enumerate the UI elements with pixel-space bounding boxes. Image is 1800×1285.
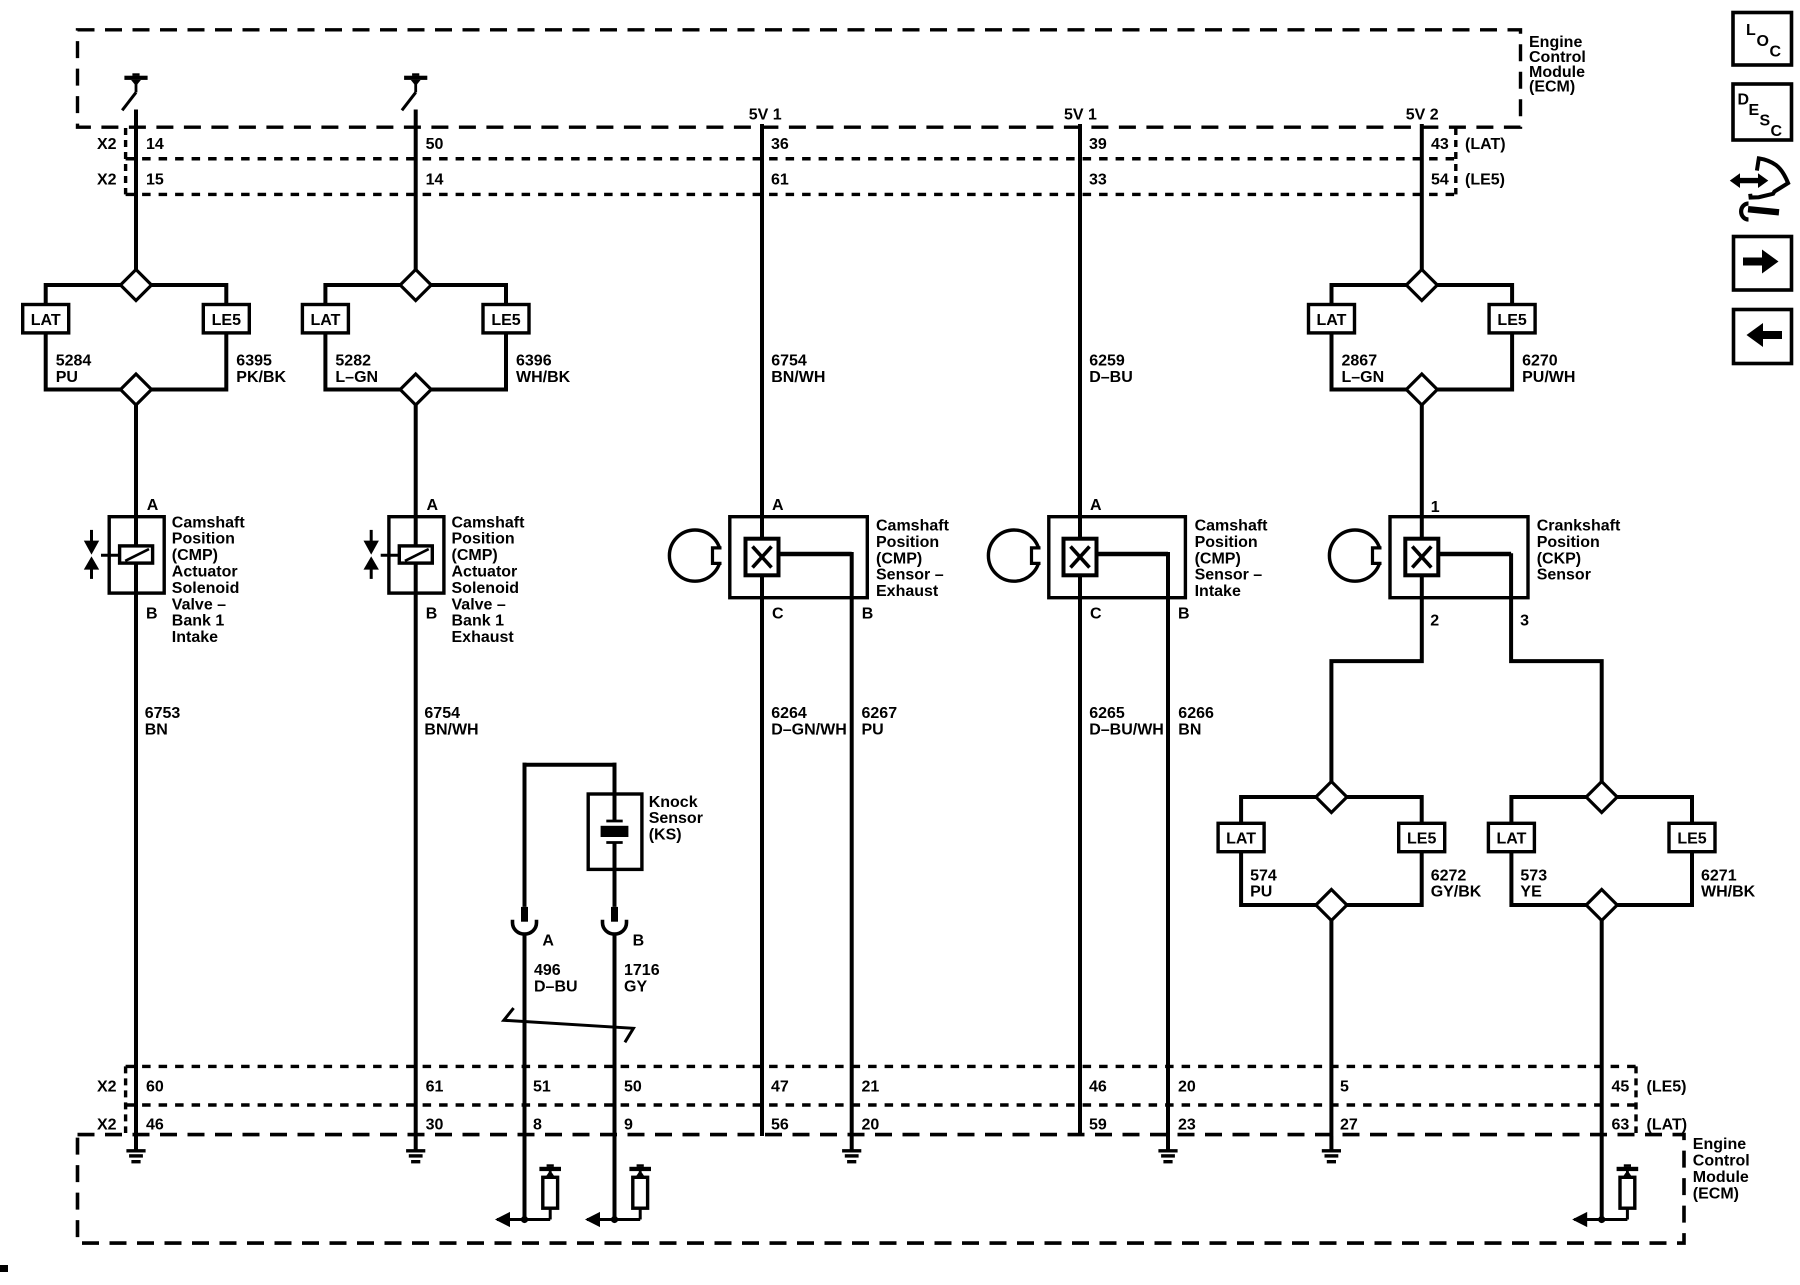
svg-text:Solenoid: Solenoid (452, 580, 520, 597)
svg-text:20: 20 (862, 1117, 880, 1134)
svg-text:(ECM): (ECM) (1529, 79, 1575, 96)
svg-text:Position: Position (172, 531, 235, 548)
knock sensor label (649, 794, 703, 844)
svg-text:23: 23 (1178, 1117, 1196, 1134)
svg-text:Bank 1: Bank 1 (452, 613, 505, 630)
Engine Control Module (ECM) bottom dashed box (78, 1135, 1685, 1244)
splice S1 options 5284 PU (LAT) / 6395 PK/BK (LE5) (23, 270, 287, 406)
wire label 1716 GY (624, 962, 660, 995)
svg-text:(ECM): (ECM) (1693, 1185, 1739, 1202)
svg-text:5V 2: 5V 2 (1406, 107, 1439, 124)
pin A label (CMP intake) (1090, 497, 1102, 514)
ground at pin 30 (6754 BN/WH) (406, 1136, 425, 1162)
wire 573/6271 splice to pins 45/63 (1600, 918, 1604, 1220)
wire 6264 D-GN/WH (CMP exhaust pin C) (760, 574, 764, 1136)
wire 6265 D-BU/WH (CMP intake pin C) (1078, 574, 1082, 1136)
wire 6753 BN (134, 564, 138, 1151)
bottom pins 50 / 9 (624, 1079, 642, 1134)
wire col1 splice to CMP actuator intake (134, 402, 138, 546)
svg-text:Module: Module (1693, 1169, 1749, 1186)
svg-text:(LAT): (LAT) (1465, 136, 1506, 153)
svg-text:46: 46 (146, 1117, 164, 1134)
svg-text:6753: 6753 (145, 705, 181, 722)
wire label 6264 D-GN/WH (771, 705, 847, 738)
svg-text:E: E (1749, 102, 1760, 119)
svg-text:8: 8 (533, 1117, 542, 1134)
pin B label (CMP intake) (1178, 606, 1190, 623)
svg-text:(LE5): (LE5) (1465, 171, 1505, 188)
svg-text:A: A (772, 497, 784, 514)
svg-text:C: C (1771, 123, 1783, 140)
top connector row separator (X2 rows) (126, 128, 1456, 194)
svg-text:5V 1: 5V 1 (1064, 107, 1097, 124)
back arrow box (1734, 310, 1792, 364)
CMP actuator intake label (172, 514, 246, 646)
svg-text:1716: 1716 (624, 962, 660, 979)
svg-text:59: 59 (1089, 1117, 1107, 1134)
svg-text:6396: 6396 (516, 353, 552, 370)
wire label 6754 BN/WH (col4 top) (771, 353, 825, 386)
bottom connector row separators (126, 1066, 1636, 1133)
svg-text:3: 3 (1520, 612, 1529, 629)
ECM internal driver switch 1 (122, 73, 147, 110)
svg-text:21: 21 (862, 1079, 880, 1096)
svg-text:1: 1 (1431, 499, 1440, 516)
inline connector terminal A (KS) (513, 907, 537, 934)
wire label 6753 BN (145, 705, 181, 738)
ECM internal driver switch 2 (402, 73, 427, 110)
bottom pins 47 / 56 (771, 1079, 789, 1134)
pin B label (CMP exhaust) (862, 606, 874, 623)
Engine Control Module (ECM) top dashed box (78, 30, 1521, 127)
svg-text:Camshaft: Camshaft (452, 514, 526, 531)
svg-text:6754: 6754 (424, 705, 460, 722)
wire 6754 BN/WH 5V ref (CMP sensor exhaust pin A) (760, 124, 764, 540)
pin 3 label (CKP) (1520, 612, 1529, 629)
svg-text:PK/BK: PK/BK (236, 369, 286, 386)
svg-text:Actuator: Actuator (452, 564, 518, 581)
bottom pins 60 / 46 (146, 1079, 164, 1134)
svg-text:574: 574 (1250, 867, 1277, 884)
svg-text:Valve –: Valve – (452, 596, 506, 613)
svg-text:D–GN/WH: D–GN/WH (771, 722, 847, 739)
svg-text:D–BU: D–BU (534, 978, 578, 995)
bottom pins 46 / 59 (1089, 1079, 1107, 1134)
DESC navigation box (1733, 84, 1792, 140)
svg-text:Valve –: Valve – (172, 596, 226, 613)
pin 2 label (CKP) (1430, 612, 1439, 629)
svg-text:6395: 6395 (236, 353, 272, 370)
svg-text:Exhaust: Exhaust (452, 629, 515, 646)
svg-text:Engine: Engine (1693, 1136, 1746, 1153)
top connector X2 labels (97, 136, 117, 189)
svg-text:61: 61 (426, 1079, 444, 1096)
svg-text:WH/BK: WH/BK (1701, 884, 1756, 901)
svg-text:43: 43 (1431, 136, 1449, 153)
svg-text:Sensor: Sensor (1537, 567, 1591, 584)
camshaft position (CMP) actuator solenoid valve bank 1 intake (84, 517, 164, 593)
svg-text:PU: PU (1250, 884, 1272, 901)
wire 1716 GY upper (through KS) (613, 765, 617, 907)
ground at pin 27 (574/6272) (1322, 1136, 1341, 1162)
bottom pins 5 / 27 (1340, 1079, 1358, 1134)
svg-text:2867: 2867 (1342, 353, 1378, 370)
wire 496 D-BU lower (pins 51/8) (523, 934, 527, 1220)
svg-text:GY/BK: GY/BK (1431, 884, 1482, 901)
wire 574/6272 splice to pins 5/27 (1329, 918, 1333, 1151)
svg-text:Intake: Intake (1195, 583, 1241, 600)
svg-text:C: C (1770, 44, 1782, 61)
svg-text:Camshaft: Camshaft (172, 514, 246, 531)
svg-text:(CMP): (CMP) (876, 550, 922, 567)
svg-text:A: A (427, 497, 439, 514)
svg-text:14: 14 (426, 171, 444, 188)
svg-text:(LAT): (LAT) (1647, 1117, 1688, 1134)
svg-text:36: 36 (771, 136, 789, 153)
svg-text:(KS): (KS) (649, 827, 682, 844)
pin B label (actuator exhaust) (426, 606, 438, 623)
svg-text:6271: 6271 (1701, 867, 1737, 884)
svg-text:Position: Position (1195, 534, 1258, 551)
svg-text:PU/WH: PU/WH (1522, 369, 1575, 386)
camshaft position (CMP) actuator solenoid valve bank 1 exhaust (364, 517, 444, 593)
wire label 6259 D-BU (col5 top) (1089, 353, 1133, 386)
splice S5 options 573 YE (LAT) / 6271 WH/BK (LE5) (1488, 782, 1755, 921)
svg-text:573: 573 (1520, 867, 1547, 884)
svg-text:Sensor –: Sensor – (876, 567, 944, 584)
svg-text:BN/WH: BN/WH (424, 722, 478, 739)
pin B label (actuator intake) (146, 606, 158, 623)
svg-text:B: B (862, 606, 874, 623)
splice S3 options 2867 L-GN (LAT) / 6270 PU/WH (LE5) (1309, 270, 1576, 406)
svg-text:63: 63 (1612, 1117, 1630, 1134)
svg-text:45: 45 (1612, 1079, 1630, 1096)
5V 1 label (CMP exhaust) (749, 107, 782, 124)
camshaft position (CMP) sensor exhaust (669, 517, 867, 598)
svg-text:Intake: Intake (172, 629, 218, 646)
wire col2 upper (pin 50/14 to splice) (414, 110, 418, 274)
wire 6266 BN (CMP intake pin B) (1166, 552, 1170, 1151)
LOC navigation box (1733, 13, 1792, 66)
svg-text:Sensor: Sensor (649, 810, 703, 827)
wire 6754 BN/WH (exhaust actuator low ref) (414, 564, 418, 1151)
svg-text:X2: X2 (97, 136, 117, 153)
svg-text:LAT: LAT (1317, 312, 1347, 329)
svg-text:BN: BN (145, 722, 168, 739)
svg-text:61: 61 (771, 171, 789, 188)
pin C label (CMP intake) (1090, 606, 1102, 623)
svg-text:5: 5 (1340, 1079, 1349, 1096)
svg-text:L–GN: L–GN (335, 369, 378, 386)
svg-text:L: L (1746, 22, 1756, 39)
CMP sensor intake label (1195, 518, 1269, 601)
svg-text:D: D (1738, 91, 1750, 108)
svg-text:27: 27 (1340, 1117, 1358, 1134)
svg-text:6266: 6266 (1178, 705, 1214, 722)
wire col2 splice to CMP actuator exhaust (414, 402, 418, 546)
ECM internal pull-up at pin 63 (1572, 1164, 1638, 1227)
svg-text:60: 60 (146, 1079, 164, 1096)
ground at pin 20 (6267 PU) (842, 1136, 861, 1162)
svg-text:A: A (542, 933, 554, 950)
svg-text:PU: PU (862, 722, 884, 739)
svg-text:L–GN: L–GN (1342, 369, 1385, 386)
svg-text:D–BU: D–BU (1089, 369, 1133, 386)
svg-text:2: 2 (1430, 612, 1439, 629)
svg-text:LE5: LE5 (1497, 312, 1526, 329)
svg-text:YE: YE (1520, 884, 1542, 901)
CMP sensor exhaust label (876, 518, 950, 601)
pin A label (actuator intake) (147, 497, 159, 514)
ECM top label (1529, 34, 1586, 95)
bottom pins 45 / 63 (1612, 1079, 1630, 1134)
page corner mark (0, 1265, 8, 1272)
svg-text:(LE5): (LE5) (1647, 1079, 1687, 1096)
wire 496 D-BU upper (523, 765, 527, 907)
svg-text:6754: 6754 (771, 353, 807, 370)
svg-text:Knock: Knock (649, 794, 698, 811)
svg-text:WH/BK: WH/BK (516, 369, 571, 386)
svg-text:LAT: LAT (1496, 831, 1526, 848)
splice S4 options 574 PU (LAT) / 6272 GY/BK (LE5) (1218, 782, 1482, 921)
svg-text:S: S (1760, 112, 1771, 129)
svg-text:20: 20 (1178, 1079, 1196, 1096)
svg-text:Position: Position (876, 534, 939, 551)
svg-text:54: 54 (1431, 171, 1449, 188)
top pins 43 / 54 (1431, 136, 1449, 189)
5V 1 label (CMP intake) (1064, 107, 1097, 124)
svg-text:(CMP): (CMP) (452, 547, 498, 564)
svg-text:X2: X2 (97, 1079, 117, 1096)
svg-text:6259: 6259 (1089, 353, 1125, 370)
ground at pin 46 (6753 BN) (126, 1136, 145, 1162)
svg-text:Exhaust: Exhaust (876, 583, 939, 600)
top pins X2-50 / X2-14 (426, 136, 444, 189)
svg-text:LAT: LAT (310, 312, 340, 329)
pin C label (CMP exhaust) (772, 606, 784, 623)
svg-text:50: 50 (426, 136, 444, 153)
ECM internal pull-up at pin 9 (585, 1164, 651, 1227)
svg-text:6264: 6264 (771, 705, 807, 722)
bottom connector X2 labels (97, 1079, 117, 1134)
svg-text:GY: GY (624, 978, 647, 995)
svg-text:39: 39 (1089, 136, 1107, 153)
svg-text:(CMP): (CMP) (172, 547, 218, 564)
harness routing icon (arrow + wrench) (1730, 158, 1788, 219)
CMP actuator exhaust label (452, 514, 526, 646)
svg-text:15: 15 (146, 171, 164, 188)
svg-text:50: 50 (624, 1079, 642, 1096)
wire CKP pin 2 elbow (1331, 574, 1421, 783)
bottom pins 21 / 20 (862, 1079, 880, 1134)
svg-text:14: 14 (146, 136, 164, 153)
svg-text:LE5: LE5 (491, 312, 520, 329)
svg-text:LE5: LE5 (212, 312, 241, 329)
wire label 6265 D-BU/WH (1089, 705, 1164, 738)
svg-text:5V 1: 5V 1 (749, 107, 782, 124)
ECM internal pull-up at pin 8 (495, 1164, 561, 1227)
bottom pins 61 / 30 (426, 1079, 444, 1134)
svg-text:Control: Control (1693, 1153, 1750, 1170)
svg-text:Camshaft: Camshaft (1195, 518, 1269, 535)
svg-text:496: 496 (534, 962, 561, 979)
wire col6 upper (pin 43/54 to splice) (1420, 124, 1424, 273)
svg-text:C: C (1090, 606, 1102, 623)
pin 1 label (CKP) (1431, 499, 1440, 516)
inline connector terminal B (KS) (603, 907, 627, 934)
svg-text:Bank 1: Bank 1 (172, 613, 225, 630)
wire col6 splice to CKP pin 1 (1420, 402, 1424, 540)
wire 6259 D-BU (CMP sensor intake pin A) (1078, 124, 1082, 540)
pin A label (actuator exhaust) (427, 497, 439, 514)
svg-text:LAT: LAT (31, 312, 61, 329)
svg-text:PU: PU (56, 369, 78, 386)
svg-text:LE5: LE5 (1677, 831, 1706, 848)
CKP sensor label (1537, 518, 1621, 584)
wire label 6267 PU (862, 705, 898, 738)
bottom pins 20 / 23 (1178, 1079, 1196, 1134)
svg-text:X2: X2 (97, 1117, 117, 1134)
svg-text:O: O (1757, 33, 1769, 50)
wire CKP pin 3 elbow (1511, 553, 1602, 783)
twisted pair indicator (504, 1008, 634, 1042)
svg-text:(CKP): (CKP) (1537, 550, 1581, 567)
camshaft position (CMP) sensor intake (988, 517, 1185, 598)
bottom connector harness labels (LE5)/(LAT) (1647, 1079, 1688, 1134)
svg-text:A: A (1090, 497, 1102, 514)
splice S2 options 5282 L-GN (LAT) / 6396 WH/BK (LE5) (302, 270, 570, 406)
svg-text:BN: BN (1178, 722, 1201, 739)
svg-text:47: 47 (771, 1079, 789, 1096)
svg-text:Actuator: Actuator (172, 564, 238, 581)
ground at pin 23 (6266 BN) (1158, 1136, 1177, 1162)
crankshaft position (CKP) sensor (1329, 517, 1528, 598)
top pins 36 / 61 (771, 136, 789, 189)
svg-text:9: 9 (624, 1117, 633, 1134)
svg-text:5282: 5282 (335, 353, 371, 370)
svg-text:A: A (147, 497, 159, 514)
svg-text:B: B (426, 606, 438, 623)
knock sensor (KS) (588, 794, 642, 869)
svg-text:Position: Position (452, 531, 515, 548)
svg-text:6267: 6267 (862, 705, 898, 722)
svg-text:B: B (633, 933, 645, 950)
svg-text:Camshaft: Camshaft (876, 518, 950, 535)
svg-text:C: C (772, 606, 784, 623)
top pins X2-14 / X2-15 (146, 136, 164, 189)
svg-text:6265: 6265 (1089, 705, 1125, 722)
svg-text:BN/WH: BN/WH (771, 369, 825, 386)
svg-text:30: 30 (426, 1117, 444, 1134)
knock sensor top jumper wire (523, 763, 617, 767)
terminal B label (633, 933, 645, 950)
wire label 6266 BN (1178, 705, 1214, 738)
svg-text:Crankshaft: Crankshaft (1537, 518, 1621, 535)
wire 6267 PU (CMP exhaust pin B) (850, 552, 854, 1151)
wire col1 upper (pin 14/15 to splice) (134, 110, 138, 274)
forward arrow box (1734, 237, 1792, 291)
svg-text:5284: 5284 (56, 353, 92, 370)
svg-text:56: 56 (771, 1117, 789, 1134)
svg-text:Solenoid: Solenoid (172, 580, 240, 597)
svg-text:B: B (146, 606, 158, 623)
svg-text:X2: X2 (97, 171, 117, 188)
svg-text:6270: 6270 (1522, 353, 1558, 370)
top connector harness labels (LAT)/(LE5) (1465, 136, 1506, 189)
svg-text:51: 51 (533, 1079, 551, 1096)
5V 2 label (CKP) (1406, 107, 1439, 124)
svg-text:33: 33 (1089, 171, 1107, 188)
wire 1716 GY lower (pins 50/9) (613, 934, 617, 1220)
ECM bottom label (1693, 1136, 1750, 1202)
svg-text:6272: 6272 (1431, 867, 1467, 884)
bottom pins 51 / 8 (533, 1079, 551, 1134)
svg-text:46: 46 (1089, 1079, 1107, 1096)
svg-text:Position: Position (1537, 534, 1600, 551)
wire label 496 D-BU (534, 962, 578, 995)
top pins 39 / 33 (1089, 136, 1107, 189)
terminal A label (542, 933, 554, 950)
wire label 6754 BN/WH (col2) (424, 705, 478, 738)
pin A label (CMP exhaust) (772, 497, 784, 514)
svg-text:LAT: LAT (1226, 831, 1256, 848)
svg-text:D–BU/WH: D–BU/WH (1089, 722, 1164, 739)
svg-text:Sensor –: Sensor – (1195, 567, 1263, 584)
svg-text:(CMP): (CMP) (1195, 550, 1241, 567)
svg-text:B: B (1178, 606, 1190, 623)
svg-text:LE5: LE5 (1407, 831, 1436, 848)
